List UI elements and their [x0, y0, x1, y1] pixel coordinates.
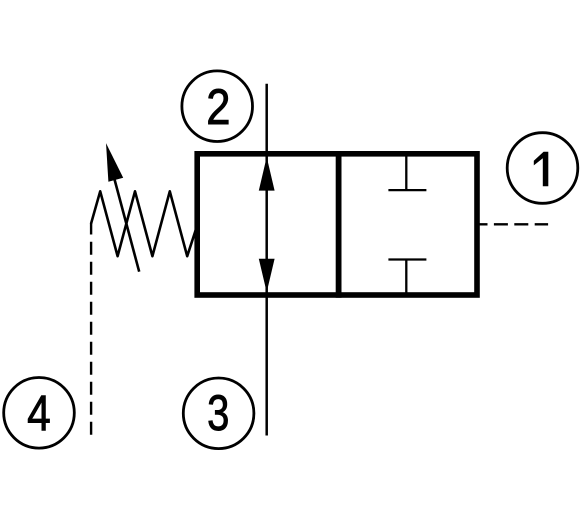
- svg-text:4: 4: [27, 385, 51, 441]
- svg-text:3: 3: [207, 385, 229, 441]
- svg-text:2: 2: [206, 79, 230, 134]
